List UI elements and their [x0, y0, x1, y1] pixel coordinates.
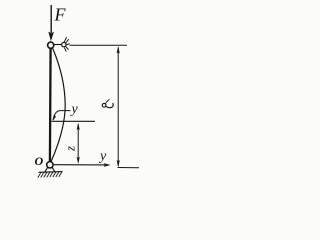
- svg-text:y: y: [70, 102, 79, 117]
- leader for deflection y: [53, 111, 71, 120]
- label z (rotated): [63, 146, 78, 152]
- svg-text:F: F: [54, 5, 67, 25]
- bottom pin: [47, 162, 53, 168]
- bottom reference line of l: [118, 167, 140, 169]
- ground hatching: [38, 172, 62, 178]
- link wire pin to roller: [54, 44, 62, 46]
- roller support (top): [62, 42, 66, 46]
- line at height z: [52, 120, 96, 122]
- ground support: [39, 167, 63, 172]
- svg-text:z: z: [63, 146, 78, 152]
- y axis: [53, 163, 110, 167]
- top pin: [48, 42, 54, 48]
- svg-text:O: O: [35, 154, 44, 168]
- dimension line l: [117, 46, 120, 167]
- label l (script ell, rotated): [102, 99, 113, 107]
- roller hatch ticks: [64, 37, 69, 51]
- force F arrow: [48, 5, 54, 41]
- dimension line z: [77, 123, 80, 164]
- top extension line: [70, 44, 128, 46]
- svg-text:y: y: [98, 149, 107, 164]
- buckled curve: [51, 48, 65, 163]
- column (undeflected axis): [49, 46, 52, 164]
